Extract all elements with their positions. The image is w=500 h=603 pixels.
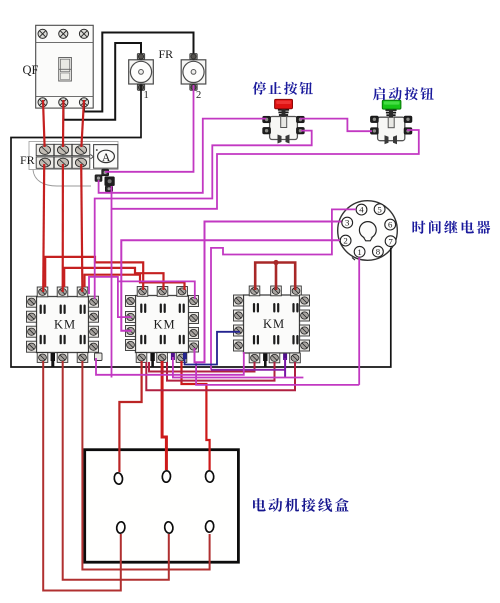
wire KM3 bottom 1 to KM2 bottom 1 (crimson): [149, 362, 255, 372]
motor junction box: [85, 450, 239, 563]
contactor KM2: [126, 287, 199, 363]
wire KM2 bottom 3 to motor W1 (red): [182, 361, 210, 470]
wire KM1 aux jumper to KM2 right top (magenta): [118, 281, 195, 299]
wire FR out 2 to KM1 top 2 (red): [62, 164, 64, 292]
wire FR out 3 to KM1 top 3 (red): [81, 164, 82, 292]
svg-text:8: 8: [376, 247, 381, 257]
time relay KT (8-pin socket): [338, 201, 398, 261]
contactor KM1: [27, 287, 103, 362]
label start button text 启动按钮: [373, 87, 434, 100]
thermal relay FR block: [29, 142, 118, 187]
label 电动机接线盒: [253, 498, 349, 512]
wire pin 4 run to KM3 coil (violet): [211, 369, 285, 371]
wire relay pin 4 line down (magenta): [211, 209, 356, 369]
wire KM3 bottom 3 to KM2 bottom 1 area (crimson): [146, 362, 295, 390]
node star junction: [273, 260, 278, 265]
wire L3 QF to FR terminal (red): [81, 100, 84, 147]
svg-text:3: 3: [345, 218, 350, 228]
wire KM3 bottom 2 to KM2 bottom 2 (crimson): [167, 362, 275, 381]
fuse FU2: [181, 54, 206, 91]
wire KM2 bottom 1 to motor U1 (red): [119, 361, 141, 472]
wire KM1 aux jumper to KM2 left 3 (magenta): [89, 277, 132, 317]
wire KM1 bottom 2 to motor V2 (dark red): [63, 361, 169, 580]
wire KM1 bottom 3 to motor U2 (dark red): [82, 361, 209, 570]
wire fuse FU2 to FR aux in (magenta): [105, 85, 194, 172]
wire KM1 bottom 1 to motor W2 (dark red): [43, 361, 121, 591]
label 时间继电器: [412, 220, 490, 233]
wire start line branch to relay area (magenta): [173, 357, 304, 378]
wire relay pin 2 line to KM2 left terminal (magenta): [121, 240, 340, 331]
wire QF pole3 to fuse FU2 (black): [84, 33, 194, 112]
svg-text:2: 2: [196, 90, 201, 101]
wire branch phase1 to KM2 top 1 (red): [45, 257, 143, 290]
svg-text:1: 1: [357, 247, 361, 257]
wire KM2 right bottom to pin1 vertical (magenta): [196, 363, 359, 385]
wire branch phase2 to KM2 top 2 (red): [64, 268, 163, 290]
wire branch phase3 to KM2 top 3 (red): [85, 275, 185, 290]
wire FR out 1 to KM1 top 1 (red): [43, 164, 44, 292]
svg-text:KM: KM: [54, 318, 76, 332]
svg-text:FR: FR: [159, 47, 174, 61]
wire KM1 bottom right aux to KM3 left bottom (magenta): [96, 352, 244, 375]
start pushbutton SB2: [370, 100, 412, 144]
wire L2 QF to FR terminal (red): [62, 100, 65, 147]
wire FR aux out to stop button (magenta): [99, 119, 266, 193]
wire stop button holding loop to KM1 aux top (magenta): [95, 131, 312, 299]
svg-text:6: 6: [388, 220, 393, 230]
circuit breaker QF: [36, 25, 93, 108]
wire start return branch down to pin1 line (magenta): [111, 209, 113, 378]
ammeter A: [91, 145, 118, 169]
wire QF pole2 to fuse FU1 (black): [64, 43, 142, 120]
wire stop button to start button (magenta): [300, 119, 372, 132]
stop pushbutton SB1: [263, 99, 305, 143]
wire neutral: fuse FU1 bottom, left border run, bottom bus to relay pin 7 (black): [11, 85, 391, 367]
svg-text:FR: FR: [20, 153, 35, 167]
wire KM2 bottom jumper to KM3 left (blue): [185, 332, 240, 365]
wire KM3 coil stub (black): [264, 358, 267, 368]
fuse FU1: [129, 54, 154, 91]
wire start button return to FR aux (magenta): [112, 130, 419, 209]
contactor KM3: [234, 286, 310, 363]
wire KM2 coil stub (black): [151, 357, 154, 367]
wire relay pin 3 line down to KM2 right bottom terminal (magenta): [195, 222, 342, 363]
svg-text:QF: QF: [23, 63, 39, 77]
wire KM3 coil tap down (purple): [284, 358, 286, 378]
svg-text:7: 7: [388, 236, 393, 246]
wire KM3 star jumper middle leg (red): [275, 263, 278, 291]
label stop button text 停止按钮: [253, 82, 313, 95]
svg-text:KM: KM: [263, 317, 285, 331]
wire KM1 coil stub (black): [51, 354, 54, 368]
FR auxiliary contact screws: [95, 169, 114, 191]
wire relay pin 1 down (magenta): [358, 257, 360, 385]
svg-text:1: 1: [144, 90, 149, 101]
svg-text:5: 5: [377, 204, 382, 214]
wire KM3 star jumper loop (red): [255, 263, 295, 291]
wire L1 QF to FR terminal (red): [43, 100, 45, 147]
svg-text:4: 4: [359, 205, 364, 215]
svg-text:2: 2: [343, 236, 347, 246]
svg-text:A: A: [102, 152, 111, 164]
wire KM2 bottom 2 to motor V1 (red thick): [162, 361, 166, 470]
svg-text:KM: KM: [154, 318, 176, 332]
